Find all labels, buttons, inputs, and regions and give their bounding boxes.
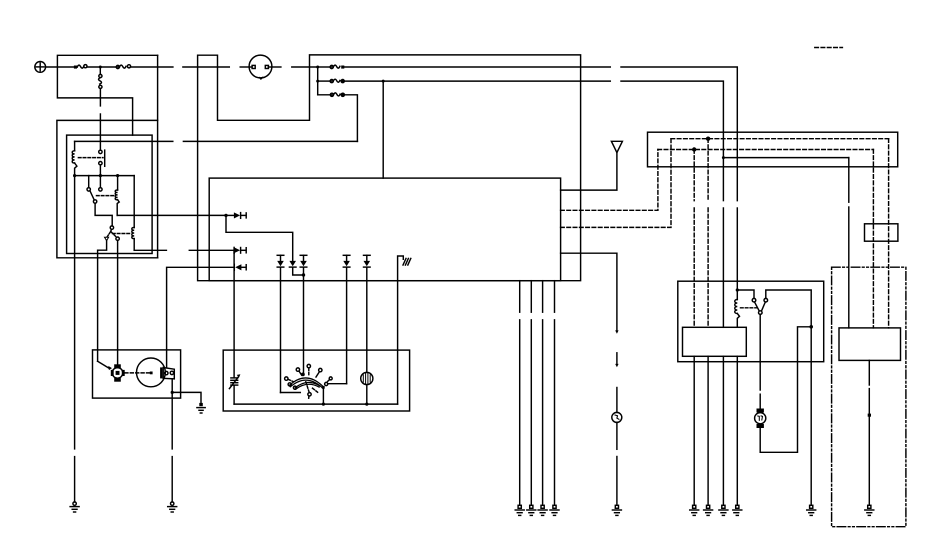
fuel sender R1 bbox=[229, 374, 240, 404]
solid wire to relay box pin3 bbox=[722, 158, 724, 201]
servo unit box bbox=[93, 350, 181, 398]
junction dot fusebox bbox=[99, 66, 102, 69]
fuse F2 bbox=[116, 65, 130, 69]
wire battery to fusebox bbox=[46, 66, 78, 68]
wire D4 to gauge bbox=[280, 268, 282, 393]
option small connector box bbox=[865, 224, 898, 241]
wire option unit to ground bbox=[868, 360, 871, 505]
ground G1 bbox=[70, 502, 79, 512]
wire L3 to diode D2 bbox=[134, 249, 166, 251]
dashed option wire 1 bbox=[561, 150, 658, 211]
diode D5 bbox=[289, 261, 303, 275]
ground wire 3 from control unit bbox=[542, 281, 544, 505]
wire connector to ignition switch bbox=[183, 66, 229, 68]
wire D3 to sensor plate bbox=[167, 267, 234, 367]
relay wiper bbox=[755, 302, 766, 314]
wire control unit to sensor line bbox=[561, 253, 617, 330]
meter assembly box bbox=[223, 350, 409, 411]
ground G14 bbox=[865, 505, 874, 515]
wire plate to local ground bbox=[171, 379, 201, 403]
servo feed diagonal bbox=[98, 361, 112, 370]
mechanical link L4-wiper bbox=[741, 307, 758, 309]
solid wire L3 to option unit bbox=[848, 158, 850, 328]
diode D1 bbox=[234, 212, 246, 218]
diode D4 bbox=[277, 255, 284, 267]
bus junction 2 bbox=[99, 174, 102, 177]
wire ignition switch to main fuses bbox=[292, 66, 318, 68]
ground wire 4 from control unit bbox=[554, 281, 556, 505]
bus junction 3 bbox=[116, 174, 119, 177]
fuse A bbox=[330, 65, 344, 69]
ground G10 bbox=[704, 505, 713, 515]
mechanical link S3-L3 bbox=[113, 233, 130, 235]
bus junction 1 bbox=[73, 174, 76, 177]
solid line L3 bbox=[723, 157, 848, 159]
dashed wire L1 to option unit bbox=[888, 139, 890, 328]
wire F1 to F2 bbox=[87, 66, 119, 68]
ground G9 bbox=[690, 505, 699, 515]
relay assembly inner box bbox=[67, 135, 153, 253]
wire D4 branch into gauge bbox=[281, 392, 301, 394]
diode D6 bbox=[300, 255, 307, 267]
main control unit box bbox=[209, 178, 560, 281]
relay coil L3 bbox=[132, 176, 134, 251]
mechanical link L1-S1 bbox=[78, 157, 103, 159]
ground G11 bbox=[719, 505, 728, 515]
relay contact 1 bbox=[752, 298, 756, 302]
connector arrow 2 bbox=[615, 364, 618, 367]
diode D7 bbox=[343, 255, 350, 267]
junction starter branch bbox=[809, 325, 813, 329]
relay connector pin wires to grounds bbox=[693, 356, 695, 505]
wire pump ground lower segment bbox=[616, 457, 618, 505]
interface box bbox=[648, 132, 898, 167]
wire frame ground lower segment bbox=[171, 457, 173, 502]
fuel pump bbox=[612, 412, 622, 422]
ignition switch bbox=[240, 55, 281, 79]
wire F2 to connector gap bbox=[131, 66, 173, 68]
mechanical link S2-L2 bbox=[97, 195, 115, 197]
ground wire 1 from control unit bbox=[519, 281, 521, 505]
fuse F1 bbox=[74, 65, 87, 69]
wire chassis to meter bus bbox=[397, 281, 399, 404]
harness frame boundary bbox=[198, 55, 581, 281]
wire bus to left ground bbox=[74, 176, 76, 449]
sensor line segment 3 bbox=[616, 388, 618, 413]
junction L2 bbox=[692, 147, 696, 151]
wire gauge output to bus bbox=[322, 389, 324, 404]
antenna connector symbol bbox=[611, 141, 622, 152]
servo motor M1 bbox=[111, 364, 125, 381]
wire to fuse A bbox=[318, 66, 332, 68]
wire D8 to lamp bbox=[366, 268, 368, 373]
wire ECU supply drop bbox=[382, 81, 384, 178]
wire lamp to bus bbox=[366, 385, 368, 405]
wire S3 throw to servo motor feed bbox=[98, 240, 107, 361]
fuel gauge meter bbox=[285, 364, 333, 399]
wire pump to ground bbox=[616, 422, 618, 449]
pin wire 4 bbox=[736, 356, 738, 505]
legend dash mark bbox=[815, 47, 843, 49]
wire left ground lower segment bbox=[74, 457, 76, 502]
junction L1 bbox=[706, 137, 710, 141]
wire coil feed into relay box bbox=[75, 140, 173, 142]
wire coil feed left segment bbox=[183, 140, 357, 142]
wire to fuse C bbox=[318, 94, 332, 96]
wire D7 to gauge right bbox=[346, 268, 348, 384]
junction D5-D6 bbox=[302, 273, 305, 276]
ground G6 bbox=[538, 505, 547, 515]
relay assembly outer box bbox=[57, 120, 158, 257]
dashed line L1 bbox=[671, 138, 889, 140]
starter relay box bbox=[678, 281, 824, 362]
diode D8 bbox=[364, 255, 371, 267]
dashed wire to relay box pin1 bbox=[693, 150, 695, 201]
dashed wire to relay box pin2 bbox=[707, 139, 709, 201]
fuse B bbox=[330, 79, 344, 83]
relay connector box bbox=[683, 327, 747, 356]
junction L3 bbox=[722, 156, 725, 159]
wire D1 branch to D5 bbox=[226, 215, 293, 261]
wire contact 2 to junction bbox=[766, 290, 811, 327]
relay coil L4 bbox=[735, 290, 740, 327]
ground G13 bbox=[807, 505, 816, 515]
wire wiper to starter motor bbox=[759, 314, 761, 408]
ground G8 bbox=[612, 505, 621, 515]
wire fuse B right bbox=[344, 80, 610, 82]
pin wire 2 bbox=[707, 356, 709, 505]
wire fuse B right after connector bbox=[621, 81, 723, 158]
wire fuse A right bbox=[344, 66, 610, 68]
relay bus wire bbox=[75, 175, 135, 177]
wire junction B to C bbox=[317, 81, 319, 95]
position sensor contact plate bbox=[160, 367, 174, 379]
ground G4 bbox=[515, 505, 524, 515]
wire junction to motor loop bbox=[760, 327, 811, 453]
fuse C bbox=[330, 93, 344, 97]
wire junction A to B bbox=[317, 67, 319, 81]
meter ground bus bbox=[234, 403, 398, 405]
junction node ECU feed bbox=[382, 80, 385, 83]
option unit inner box bbox=[839, 328, 901, 361]
wire D2 feed after connector bbox=[189, 249, 234, 251]
wire to fuse B bbox=[318, 80, 332, 82]
pin wire 3 bbox=[722, 356, 724, 505]
relay coil L2 bbox=[115, 176, 119, 216]
wire D7 branch into gauge bbox=[328, 383, 347, 385]
throttle disc bbox=[137, 358, 166, 387]
wire L2 to diode D1 bbox=[117, 214, 226, 216]
wire S2 wiper to S3 bbox=[95, 203, 112, 226]
wire D6 to gauge coil bbox=[303, 268, 305, 375]
relay contact feed bbox=[737, 290, 754, 298]
bus junction gauge bbox=[322, 403, 325, 406]
wire antenna to control unit bbox=[561, 153, 617, 191]
battery positive terminal bbox=[35, 62, 46, 73]
wire fuse C to relay coil feed bbox=[344, 95, 357, 142]
ground G3 bbox=[168, 502, 177, 512]
dashed option wire 2 bbox=[561, 139, 671, 228]
diode D2 bbox=[234, 247, 246, 253]
connector arrow 1 bbox=[615, 330, 618, 333]
relay contact S1 bbox=[99, 150, 105, 176]
bus junction lamp bbox=[365, 403, 368, 406]
ground G7 bbox=[550, 505, 559, 515]
wire S3 contact to servo motor bbox=[117, 240, 119, 364]
mechanical link M1 to disc bbox=[125, 372, 153, 375]
ground wire 2 from control unit bbox=[530, 281, 532, 505]
wire D1 anode bbox=[226, 214, 234, 216]
indicator lamp bbox=[361, 372, 373, 384]
wire D2-D3 column to fuel sender bbox=[233, 250, 235, 377]
switch S3 bbox=[105, 226, 120, 241]
wire fuse A right after connector bbox=[621, 67, 737, 201]
ground G2 (filled) bbox=[197, 403, 205, 413]
option unit dash-dot box bbox=[832, 267, 906, 527]
wire plate to frame ground bbox=[171, 392, 173, 449]
fuse box (top-left) bbox=[57, 55, 157, 257]
sensor line segment 2 bbox=[616, 353, 618, 364]
junction node fuse B bbox=[316, 80, 319, 83]
ground G5 bbox=[527, 505, 536, 515]
switch S2 bbox=[87, 176, 102, 204]
junction node fuse A bbox=[316, 66, 319, 69]
chassis ground symbol in control unit bbox=[398, 256, 411, 281]
wire fuse A lower segment to relay bbox=[736, 208, 738, 290]
relay coil L1 bbox=[72, 141, 77, 175]
dashed line L2 bbox=[658, 149, 874, 151]
wire junction to ground bbox=[810, 327, 812, 505]
ground G12 bbox=[733, 505, 742, 515]
diode D1 junction bbox=[224, 214, 227, 217]
relay contact 2 bbox=[764, 298, 768, 302]
dashed wire L2 to option unit bbox=[872, 150, 874, 328]
starter motor M2 bbox=[755, 409, 766, 429]
fuse F3 (vertical) bbox=[99, 69, 102, 151]
diode D3 (reversed) bbox=[234, 264, 246, 270]
wire fuse A drop to relay coil bbox=[736, 288, 739, 291]
